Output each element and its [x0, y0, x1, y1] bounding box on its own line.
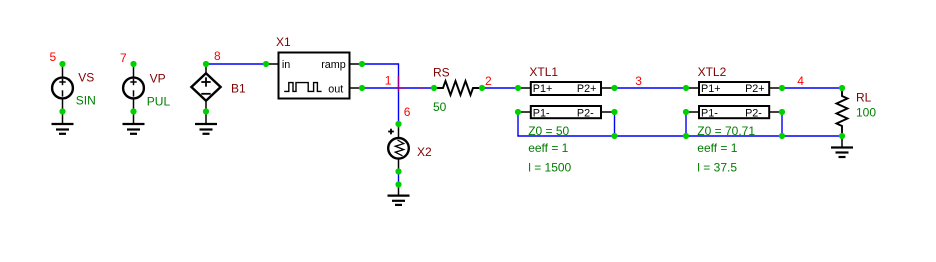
svg-text:out: out [328, 83, 343, 95]
wire node1 down to X2.plus node6 [398, 88, 400, 124]
subcircuit block X1 [266, 53, 362, 99]
svg-text:SIN: SIN [76, 93, 96, 107]
svg-text:B1: B1 [231, 82, 246, 96]
node XTL2 P2- [779, 109, 785, 115]
svg-text:2: 2 [485, 74, 492, 88]
svg-text:RL: RL [856, 90, 872, 104]
svg-text:X1: X1 [276, 35, 291, 49]
wire XTL2.P2- drop [781, 112, 783, 136]
node XTL2 P2+ [779, 85, 785, 91]
node VS top terminal [59, 61, 65, 67]
ground below VS [52, 112, 74, 134]
node XTL1 P1+ [515, 85, 521, 91]
svg-text:50: 50 [433, 100, 447, 114]
node 6 X2 top [395, 121, 401, 127]
junction rail XTL1 P2- [611, 133, 617, 139]
behavioral source B1 [191, 64, 220, 112]
node RS left [431, 85, 437, 91]
node VP bottom terminal [130, 108, 136, 114]
transmission line XTL2 [686, 82, 782, 118]
junction rail XTL2 P2- [779, 133, 785, 139]
svg-text:5: 5 [50, 50, 57, 64]
node X2 ground junction [395, 181, 401, 187]
node XTL1 P2+ [611, 85, 617, 91]
svg-text:4: 4 [797, 74, 804, 88]
source X2 [388, 124, 409, 172]
junction rail XTL2 P1- [683, 133, 689, 139]
net label anchor marks node 1 [399, 76, 424, 91]
svg-text:8: 8 [214, 49, 221, 63]
node X1 in pin [263, 61, 269, 67]
svg-text:6: 6 [404, 105, 411, 119]
wire X1.out to node1 junction [362, 87, 399, 89]
ground below VP [123, 112, 145, 134]
svg-text:P1+: P1+ [533, 83, 553, 95]
svg-text:Z0 = 70.71: Z0 = 70.71 [697, 124, 755, 138]
wire net8 B1.top to X1.in [206, 63, 266, 65]
wire corner down to node1 junction [398, 63, 400, 88]
svg-text:XTL2: XTL2 [698, 65, 727, 79]
node X1 ramp pin [359, 61, 365, 67]
node B1 bottom terminal [203, 108, 209, 114]
svg-text:eeff = 1: eeff = 1 [528, 141, 568, 155]
svg-text:l = 37.5: l = 37.5 [697, 161, 737, 175]
wire XTL2.P1- drop [685, 112, 687, 136]
svg-text:ramp: ramp [321, 59, 346, 71]
wire net4 XTL2.P2+ to RL.top [782, 87, 842, 89]
text labels [50, 49, 805, 119]
svg-text:l = 1500: l = 1500 [528, 161, 571, 175]
svg-text:3: 3 [635, 74, 642, 88]
svg-text:100: 100 [856, 106, 876, 120]
svg-text:1: 1 [385, 74, 392, 88]
resistor RL [837, 88, 848, 136]
svg-text:in: in [282, 59, 290, 71]
node VS bottom terminal [59, 108, 65, 114]
voltage source VP [123, 64, 144, 112]
svg-text:P1-: P1- [533, 107, 550, 119]
ground below X2 [388, 185, 410, 205]
svg-text:P1-: P1- [701, 107, 718, 119]
svg-text:Z0 = 50: Z0 = 50 [528, 124, 569, 138]
svg-text:RS: RS [433, 65, 450, 79]
svg-text:XTL1: XTL1 [529, 65, 558, 79]
node X2 bottom [395, 168, 401, 174]
transmission line XTL1 [518, 82, 615, 118]
svg-text:PUL: PUL [147, 94, 171, 108]
node 4 RL top [839, 85, 845, 91]
voltage source VS [52, 64, 73, 112]
wire net3 XTL1.P2+ to XTL2.P1+ [615, 87, 687, 89]
node VP top terminal [130, 61, 136, 67]
svg-text:P2-: P2- [577, 107, 594, 119]
svg-text:7: 7 [120, 51, 127, 65]
wire X1.ramp to corner [362, 63, 399, 65]
ground below B1 [195, 112, 217, 134]
svg-text:VP: VP [150, 71, 166, 85]
node XTL1 P1- [515, 109, 521, 115]
wire XTL1.P1- drop [517, 112, 519, 136]
wire bottom return rail [517, 135, 842, 137]
svg-text:P2+: P2+ [745, 83, 765, 95]
node X1 out pin [359, 85, 365, 91]
wire net2 RS.right to XTL1.P1+ [482, 87, 518, 89]
wire node1 to RS.left [399, 87, 435, 89]
node RL bottom rail end [839, 133, 845, 139]
svg-text:eeff = 1: eeff = 1 [697, 141, 737, 155]
svg-text:P2-: P2- [745, 107, 762, 119]
ground below RL [831, 136, 853, 157]
node XTL2 P1+ [683, 85, 689, 91]
node XTL1 P2- [611, 109, 617, 115]
svg-text:P2+: P2+ [577, 83, 597, 95]
wire X2.minus to ground node [398, 172, 400, 185]
svg-text:P1+: P1+ [701, 83, 721, 95]
wire XTL1.P2- drop [614, 112, 616, 136]
node 2 RS right [479, 85, 485, 91]
resistor RS [434, 81, 482, 95]
svg-text:X2: X2 [417, 145, 432, 159]
node XTL2 P1- [683, 109, 689, 115]
svg-text:VS: VS [78, 70, 94, 84]
node B1 top terminal [203, 61, 209, 67]
